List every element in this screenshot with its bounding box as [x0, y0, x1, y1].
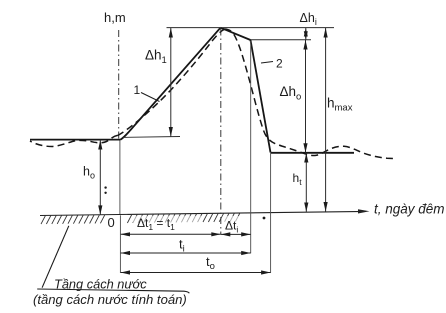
svg-text:0: 0 — [108, 215, 115, 230]
stray dot artifact — [263, 217, 266, 220]
curve label 1 with leader — [134, 83, 160, 102]
dimension dh1 (delta h 1) — [123, 28, 180, 138]
dimension t_i (row 2) — [121, 251, 251, 255]
svg-text:Tầng cách nước: Tầng cách nước — [54, 277, 147, 292]
curve 1 steep recession — [251, 40, 271, 153]
curve 1 tail level — [271, 152, 355, 154]
label dt_i — [223, 216, 243, 230]
svg-text:hmax: hmax — [327, 96, 353, 114]
origin extension below ground — [119, 215, 121, 273]
post-crest level line — [251, 39, 312, 41]
svg-text:Δh1: Δh1 — [145, 48, 167, 67]
svg-text:(tầng cách nước tính toán): (tầng cách nước tính toán) — [33, 292, 187, 307]
svg-text:Δt1 = t1: Δt1 = t1 — [137, 216, 175, 232]
h axis (vertical dash-dot) — [119, 30, 120, 215]
dimension h_max — [324, 28, 328, 212]
svg-text:2: 2 — [276, 57, 283, 71]
t axis / ground line with arrow — [40, 209, 370, 215]
curve 2 dashed recession and tail — [225, 29, 395, 159]
svg-text:ht: ht — [293, 171, 303, 187]
curve 2 dashed left segment — [30, 135, 118, 146]
svg-text:ho: ho — [83, 165, 95, 181]
svg-text:to: to — [206, 254, 215, 272]
svg-text:Δhi: Δhi — [300, 11, 317, 27]
corner extension line — [270, 153, 272, 273]
dimension dh_i (delta h i) — [304, 28, 308, 40]
leader line to aquitard text — [37, 226, 189, 293]
svg-text:ti: ti — [179, 237, 185, 255]
dimension h_t — [304, 153, 308, 212]
initial water level (solid) — [30, 139, 121, 141]
colon mark near h_0 line — [104, 186, 106, 194]
svg-text:1: 1 — [134, 83, 141, 97]
curve 2 dashed rising limb — [118, 29, 225, 135]
curve 1 crest descent — [221, 28, 251, 40]
dimension dh0 (delta h 0) — [303, 40, 307, 153]
dimension h_0 — [98, 140, 102, 215]
peak level line — [167, 27, 335, 29]
dimension dt1 = t1 (row 1 left) — [121, 232, 221, 236]
dimension t_o (row 3) — [121, 270, 271, 274]
svg-text:Δti: Δti — [225, 219, 238, 235]
ground hatching — [41, 213, 240, 224]
label dt1 = t1 — [133, 216, 201, 230]
svg-text:h,m: h,m — [104, 10, 126, 25]
svg-text:Δho: Δho — [280, 84, 302, 103]
peak ordinate (dash-dot extension) — [220, 29, 222, 235]
dimension dt_i (row 1 right) — [221, 232, 251, 236]
svg-text:t, ngày đêm: t, ngày đêm — [374, 202, 445, 217]
kink extension line — [250, 41, 252, 253]
curve 1 rising limb — [121, 28, 221, 140]
curve label 2 with leader — [261, 57, 283, 71]
